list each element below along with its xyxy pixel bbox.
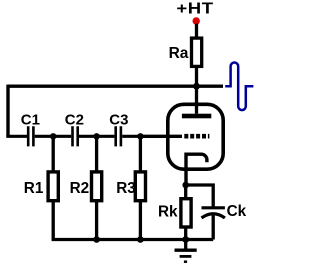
- node 2 junction: [93, 133, 99, 139]
- wire node 2 to C3: [97, 135, 115, 138]
- wire R1 to bottom rail: [52, 201, 55, 240]
- wire node 1 down to R1: [52, 136, 55, 170]
- wire Ck to bottom rail: [212, 215, 215, 239]
- +HT node (red dot): [193, 17, 200, 24]
- svg-text:R3: R3: [116, 180, 136, 197]
- label Ck: [227, 203, 247, 220]
- node: cathode junction: [182, 182, 189, 189]
- wire R3 to bottom rail: [139, 201, 142, 240]
- capacitor Ck curved plate: [202, 214, 225, 218]
- svg-text:C2: C2: [65, 111, 84, 128]
- wire R2 to bottom rail: [95, 201, 98, 240]
- node: anode junction dot: [193, 83, 200, 90]
- svg-text:Ra: Ra: [169, 45, 189, 62]
- node 1 junction: [50, 133, 56, 139]
- node 3 junction: [137, 133, 143, 139]
- wire cathode junction to Ck: [186, 185, 214, 207]
- wire: bottom ground rail: [53, 238, 213, 240]
- resistor R2: [92, 172, 102, 201]
- output sine wave symbol: [225, 63, 253, 111]
- svg-text:+HT: +HT: [176, 0, 213, 17]
- node: ground junction: [182, 236, 189, 243]
- wire cathode junction to Rk: [184, 185, 187, 199]
- wire C3 to node 3: [122, 135, 140, 138]
- label R3: [116, 180, 136, 197]
- resistor R3: [135, 172, 145, 201]
- triode V1 envelope: [168, 104, 223, 169]
- resistor Rk: [181, 199, 191, 227]
- triode V1 grid (dashed): [184, 134, 209, 139]
- triode V1 anode plate: [182, 114, 211, 119]
- wire node 1 to C2: [53, 135, 71, 138]
- capacitor C2: [73, 126, 78, 146]
- capacitor Ck top plate: [202, 206, 225, 209]
- wire node 3 to grid: [140, 135, 182, 138]
- wire node 3 down to R3: [139, 136, 142, 170]
- wire Rk to ground junction: [184, 227, 187, 240]
- wire C1 to node 1: [35, 135, 54, 138]
- label R1: [24, 180, 44, 197]
- svg-text:C3: C3: [109, 111, 128, 128]
- label C2: [65, 111, 84, 128]
- wire: into C1: [6, 135, 27, 138]
- node: bottom rail junction at R3: [137, 236, 144, 243]
- capacitor C1: [28, 126, 33, 146]
- ground symbol: [175, 240, 197, 262]
- wire +HT to Ra: [195, 24, 198, 38]
- label Ra: [169, 45, 189, 62]
- svg-text:Ck: Ck: [227, 203, 247, 220]
- resistor Ra: [192, 38, 202, 66]
- resistor R1: [48, 172, 58, 201]
- wire: feedback left vertical: [6, 85, 9, 137]
- capacitor C3: [116, 126, 121, 146]
- svg-text:R2: R2: [70, 180, 90, 197]
- svg-text:R1: R1: [24, 180, 44, 197]
- triode V1 cathode with hook: [186, 154, 207, 185]
- label R2: [70, 180, 90, 197]
- wire C2 to node 2: [79, 135, 97, 138]
- node: bottom rail junction at R2: [93, 236, 100, 243]
- wire node 2 down to R2: [95, 136, 98, 170]
- svg-text:Rk: Rk: [158, 204, 178, 221]
- wire: feedback top horizontal: [8, 85, 197, 88]
- label C1: [21, 111, 40, 128]
- wire: output to sine symbol: [197, 85, 224, 88]
- svg-text:C1: C1: [21, 111, 40, 128]
- triode V1 anode lead: [195, 86, 198, 114]
- label Rk: [158, 204, 178, 221]
- label C3: [109, 111, 128, 128]
- wire Ra to anode junction: [195, 68, 198, 87]
- +HT supply label: [176, 0, 213, 17]
